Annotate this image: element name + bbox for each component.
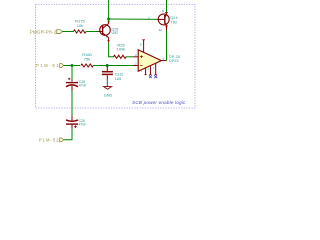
pin 2	[134, 65, 139, 67]
wire Q25 emitter down to R25	[109, 43, 114, 57]
wire top rail right (x=167 from top into Q24)	[166, 0, 168, 12]
svg-text:100k: 100k	[117, 47, 126, 52]
resistor R175	[73, 30, 86, 33]
svg-text:P1M-52: P1M-52	[39, 138, 60, 143]
transistor Q25	[100, 25, 111, 36]
wire C26 to C25	[71, 91, 73, 116]
svg-text:U92: U92	[112, 31, 119, 35]
resistor R25	[113, 55, 126, 58]
svg-text:C112: C112	[115, 72, 123, 76]
wire op-amp output up to Q24	[166, 31, 168, 61]
wire junction to Q24 base	[109, 18, 157, 20]
transistor Q24	[158, 14, 169, 25]
capacitor C25	[71, 116, 73, 121]
wire R25 to op-amp pin3	[126, 56, 134, 58]
wire label to R175	[62, 31, 73, 33]
node junction at 108.6,19	[107, 18, 110, 21]
no-connect X marks	[149, 75, 152, 78]
wire C25 down to hier label	[64, 129, 73, 140]
svg-text:10k: 10k	[77, 23, 83, 28]
svg-text:E2: E2	[159, 28, 163, 32]
svg-text:75k: 75k	[84, 56, 90, 61]
svg-text:1A5: 1A5	[115, 77, 121, 81]
wire junction down to C26	[71, 66, 73, 80]
svg-text:GND: GND	[104, 94, 113, 98]
svg-text:47uF: 47uF	[79, 123, 87, 127]
capacitor C26	[71, 80, 73, 82]
svg-text:DP20: DP20	[169, 59, 179, 63]
ground	[106, 85, 108, 86]
pin 6 output	[161, 60, 166, 62]
resistor R160	[81, 64, 94, 67]
svg-text:SCB power enable logic: SCB power enable logic	[132, 100, 186, 105]
pin 8 top power	[143, 40, 145, 53]
bottom pins 1 4 7	[145, 68, 147, 74]
wire label to junction	[64, 65, 81, 67]
capacitor C112	[106, 66, 108, 72]
svg-text:P1M-S1: P1M-S1	[36, 63, 60, 68]
pin 3	[134, 56, 139, 58]
svg-text:47uF: 47uF	[79, 83, 87, 87]
op-amp U2	[138, 50, 161, 72]
node junction at 107.2,65.5	[106, 64, 109, 67]
svg-text:B: B	[162, 9, 164, 13]
sheet background	[0, 0, 200, 150]
svg-text:PMGR-P8-2: PMGR-P8-2	[30, 30, 57, 35]
dashed group box	[36, 5, 196, 109]
svg-text:T82: T82	[170, 20, 177, 24]
node junction at 72,65.5	[71, 64, 74, 67]
wire top rail left (x=108.6 from top to junction)	[108, 0, 110, 22]
svg-text:C: C	[148, 16, 150, 20]
wire R175 to Q25 base	[86, 31, 98, 33]
wire R160 to op-amp pin2	[93, 65, 133, 67]
